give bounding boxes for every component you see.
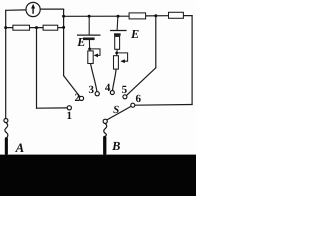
junction dot second bus at x=63.5: [62, 15, 65, 18]
junction dot second bus at left battery: [88, 15, 91, 18]
resistor box right branch: [115, 36, 120, 49]
contact 1: [67, 106, 71, 110]
wiper arrow right rheostat: [117, 53, 128, 63]
wire resistor row: R1 to R2: [29, 27, 43, 29]
wire second bus segment right: [183, 15, 192, 17]
wire top-left horizontal: [6, 9, 27, 11]
switch S pivot: [103, 119, 107, 123]
junction dot second bus at right battery: [117, 15, 120, 18]
battery E right: [110, 16, 127, 36]
wire right edge vertical: [191, 16, 193, 105]
resistor R3: [129, 13, 146, 19]
svg-text:E: E: [130, 27, 139, 41]
svg-text:1: 1: [66, 110, 72, 122]
junction dot left bus / resistor row: [4, 26, 7, 29]
battery E left: [77, 16, 101, 49]
bench black band: [0, 155, 196, 196]
svg-text:E: E: [76, 35, 85, 49]
flexible lead to electrode A: [5, 123, 8, 138]
junction dot middle of resistor row: [35, 26, 38, 29]
left terminal: [4, 119, 8, 123]
svg-text:4: 4: [105, 82, 111, 94]
svg-text:B: B: [111, 139, 120, 153]
contact 2: [79, 96, 83, 100]
wire galvanometer to top-right corner: [40, 8, 63, 10]
svg-text:A: A: [15, 141, 25, 155]
contact 4: [110, 91, 114, 95]
wire resistor row: bus to R1: [6, 27, 14, 29]
wire second bus segment left: [64, 15, 130, 17]
wire left rheostat to contact 3: [91, 64, 97, 92]
junction dot second bus at x=156: [154, 14, 157, 17]
contact 5: [123, 95, 127, 99]
electrode B: [103, 136, 106, 155]
wire diagonal to contact 5: [127, 68, 156, 96]
rheostat box right: [114, 56, 119, 69]
wire x=63.5 vertical: [63, 9, 65, 76]
wire bottom-right horizontal to contact 6: [135, 104, 192, 107]
svg-text:S: S: [113, 104, 119, 116]
svg-text:6: 6: [136, 93, 142, 105]
contact 3: [95, 92, 99, 96]
wire x=156 vertical: [155, 16, 157, 68]
wire right rheostat to contact 4: [113, 69, 117, 90]
junction dot right rheostat tap: [115, 49, 118, 55]
resistor R4: [169, 12, 184, 18]
electrode A: [5, 137, 8, 155]
flexible lead to electrode B: [104, 124, 107, 137]
junction dot left rheostat tap: [88, 48, 91, 51]
wire contact 1 lead: [37, 107, 68, 109]
svg-text:2: 2: [74, 92, 80, 104]
wire second bus segment middle: [146, 15, 169, 17]
contact 6: [131, 103, 135, 107]
resistor R2: [43, 25, 58, 30]
wire middle vertical x=36.5: [36, 28, 38, 109]
junction dot right of resistor row: [62, 26, 65, 29]
svg-text:3: 3: [88, 84, 94, 96]
switch S blade: [107, 106, 131, 120]
galvanometer G: [26, 2, 40, 16]
rheostat box left: [88, 49, 93, 64]
svg-text:5: 5: [122, 84, 128, 96]
wire left vertical bus: [5, 10, 7, 118]
wire diagonal to contact 2: [64, 76, 81, 98]
resistor R1: [13, 25, 30, 30]
wire resistor row: R2 to right node: [58, 27, 64, 29]
wiper arrow left rheostat: [90, 49, 100, 57]
